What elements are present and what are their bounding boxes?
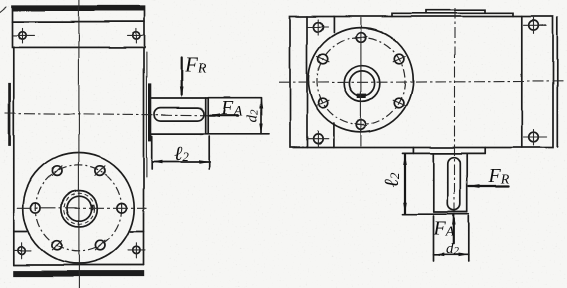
right view: output shaft centerline: [454, 8, 456, 213]
right view: force FA arrow: [452, 214, 456, 244]
left view: force FR leader line: [180, 58, 184, 98]
right view: flange bolt hole 30deg: [393, 54, 405, 64]
right view: top cover narrow tab: [426, 10, 485, 13]
right view: flange bolt hole 150deg: [317, 54, 329, 64]
right view: corner hole bottom-right: [524, 130, 547, 146]
left view: flange horizontal centerline: [17, 207, 147, 209]
right view: flange bolt hole 330deg: [393, 98, 405, 108]
left view: keyway: [91, 204, 94, 210]
right view: shaft keyway slot: [448, 157, 461, 210]
left view: left bearing tab: [8, 83, 11, 145]
left view: flange bolt hole 240deg: [52, 240, 62, 250]
left view: force FA arrow: [209, 113, 238, 117]
left view: l2 dimension line with arrows: [152, 160, 210, 163]
right view: flange bolt hole 270deg: [355, 120, 367, 130]
right view: flange vertical centerline: [360, 18, 362, 146]
right view: hub outer circle: [344, 66, 380, 102]
right view: d2 dimension line with arrows: [434, 253, 469, 257]
left view: shaft axis centerline: [5, 113, 210, 115]
left view: d2 dimension line with arrows: [259, 98, 262, 134]
right view: keyway: [357, 94, 366, 98]
right view: right edge outer line: [556, 18, 558, 148]
left view: flange bolt hole 0deg: [117, 203, 127, 213]
left view: bottom-left mounting hole: [14, 243, 32, 259]
left view: output shaft: [151, 98, 208, 134]
right view: corner hole top-right: [524, 18, 547, 34]
right view: bottom boss plate: [403, 148, 486, 154]
right view: front plate edge (top segment): [333, 17, 335, 33]
left view: hub dashed circle: [64, 193, 94, 223]
right view: flange bolt hole 90deg: [355, 32, 367, 42]
left view: top-right mounting hole: [128, 28, 146, 43]
right view: front plate edge (bottom segment): [333, 124, 335, 148]
left view: base step line: [14, 231, 144, 233]
left view: bore circle: [67, 196, 92, 221]
left view: shaft keyway slot: [154, 108, 204, 121]
right view: outer housing box: [290, 17, 553, 148]
right view: bore circle: [349, 71, 374, 96]
left view: flange outer circle: [23, 153, 134, 264]
left view: l2 extension lines: [152, 136, 210, 169]
stray scan mark top-left corner: [0, 7, 6, 12]
right view: flange bolt hole 210deg: [317, 98, 329, 108]
right view: flange outer circle: [308, 28, 413, 133]
left view: housing body: [14, 47, 147, 265]
right view: l2 dimension line with arrows: [403, 154, 407, 214]
right view: horizontal centerline: [279, 81, 565, 82]
left view: top mounting plate: [13, 6, 145, 47]
right view: bolt circle (dash-dot): [317, 37, 405, 125]
left view: d2 extension lines: [200, 98, 269, 134]
right view: left flange column line: [306, 17, 308, 148]
left view: bottom-right mounting hole: [128, 243, 145, 259]
left view: right bearing boss strip: [148, 83, 151, 141]
left view: top-left mounting hole: [14, 28, 35, 43]
left view: flange bolt hole 60deg: [95, 166, 105, 176]
right view: d2 extension lines: [434, 216, 469, 262]
right view: top cover wide tab: [392, 13, 513, 16]
left view: flange bolt hole 180deg: [31, 203, 41, 213]
left view: flange bolt hole 300deg: [95, 240, 105, 250]
left view: flange bolt hole 120deg: [52, 166, 62, 176]
left view: bolt circle (dash-dot): [36, 165, 122, 251]
left view: base plate: [13, 265, 144, 277]
right view: right column line: [521, 17, 523, 148]
left view: hub outer circle: [61, 191, 97, 227]
left view: vertical centerline: [78, 0, 80, 288]
right view: corner hole top-left: [308, 20, 328, 36]
right view: force FR arrow: [468, 185, 509, 189]
right view: output shaft (down): [403, 153, 469, 214]
right view: corner hole bottom-left: [308, 131, 329, 147]
